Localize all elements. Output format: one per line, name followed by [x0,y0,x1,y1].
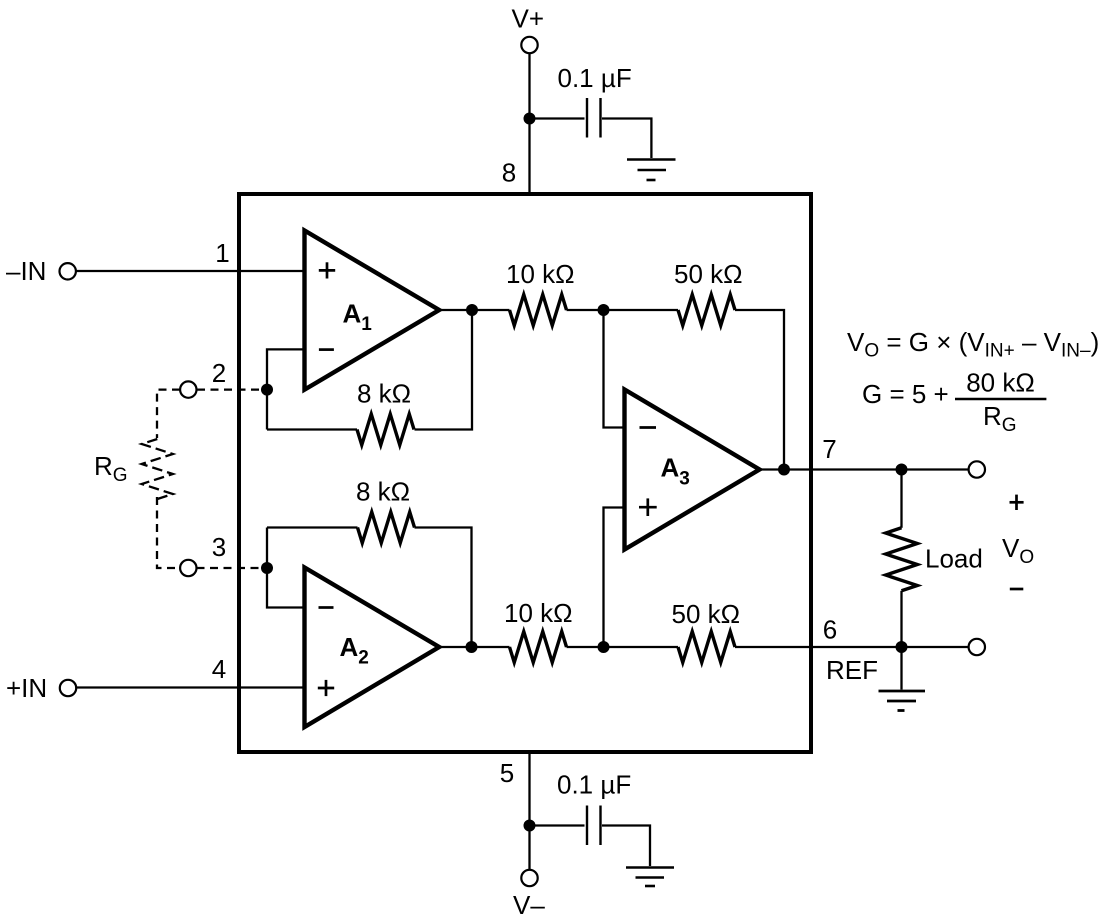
wire A3 output to VO terminal (pin 7) [760,468,969,470]
junction on V+ wire [524,113,536,125]
wire 50k top to A3 output [735,310,784,470]
dashed wire terminal 3 to pin 3 node [197,567,260,569]
svg-text:0.1 µF: 0.1 µF [558,63,632,93]
svg-text:RG: RG [94,451,128,486]
svg-text:2: 2 [212,358,226,388]
terminal +IN [60,680,76,696]
svg-text:50 kΩ: 50 kΩ [672,599,741,629]
A2 + input sign [318,680,334,696]
svg-text:G = 5 +: G = 5 + [862,379,949,409]
wire A2 inverting input [267,528,305,608]
terminal V- [521,870,537,886]
svg-text:0.1 µF: 0.1 µF [557,770,631,800]
svg-text:8 kΩ: 8 kΩ [356,477,410,507]
A1 + input sign [319,262,335,278]
wire A2 feedback right lead to output [415,528,472,648]
svg-text:10 kΩ: 10 kΩ [504,598,573,628]
wire V+ to pin 8 [528,54,530,195]
wire load bottom lead [900,591,902,647]
svg-text:Load: Load [925,544,983,574]
resistor 50 kOhm (top) [678,295,735,326]
wire +IN to A2 noninverting input (pin 4) [77,686,305,688]
resistor 50 kOhm (bottom) [678,632,735,663]
node A3 output junction [778,464,790,476]
label + (output polarity) [1010,495,1024,510]
svg-text:6: 6 [823,615,837,645]
svg-text:V+: V+ [512,4,545,34]
wire REF to ground [900,647,902,690]
wire A1 inverting input [267,349,305,429]
ground (bottom) [626,868,674,887]
svg-text:3: 3 [212,532,226,562]
terminal V+ [521,37,537,53]
svg-text:1: 1 [215,238,229,268]
capacitor C2 0.1 uF [587,806,601,846]
dashed wire pin 2 to RG terminal [197,388,260,390]
resistor 8 kOhm (A1 feedback) [357,414,414,445]
terminal -IN [59,263,75,279]
dashed wire terminal 2 to RG [157,390,180,438]
wire load top lead [900,470,902,528]
node A2 output junction [466,641,478,653]
node load top junction [896,464,908,476]
wire junction to C1 [530,117,585,119]
svg-text:+IN: +IN [6,673,47,703]
svg-text:50 kΩ: 50 kΩ [674,259,743,289]
svg-text:8 kΩ: 8 kΩ [357,379,411,409]
node REF junction [896,641,908,653]
svg-text:REF: REF [826,655,878,685]
resistor 8 kOhm (A2 feedback) [358,512,415,543]
A1 - input sign [319,348,334,351]
node A3 inverting junction [598,304,610,316]
node A3 noninverting junction [598,641,610,653]
A3 + input sign [639,498,657,516]
svg-text:8: 8 [502,158,516,188]
dashed wire RG to terminal 3 [157,497,180,568]
terminal pin 3 (RG) [180,560,196,576]
svg-text:7: 7 [822,434,836,464]
resistor 10 kOhm (bottom) [510,632,567,663]
resistor 10 kOhm (top) [510,295,567,326]
svg-text:RG: RG [983,401,1017,436]
wire A1 feedback right lead to output [415,310,473,430]
formula fraction bar [955,398,1046,401]
wire A1 output [439,309,509,311]
svg-text:–IN: –IN [6,256,46,286]
op-amp A2 [305,568,440,728]
wire A1 feedback left lead [267,428,357,430]
node pin 2 junction [261,384,273,396]
IC package outline U1 [239,194,811,752]
node pin 3 junction [261,562,273,574]
wire junction to C2 [530,824,585,826]
node A1 output junction [466,304,478,316]
wire -IN to A1 noninverting input (pin 1) [77,270,305,272]
A3 - input sign [640,426,657,429]
svg-text:V–: V– [513,890,545,919]
svg-text:VO: VO [1002,533,1034,568]
terminal pin 2 (RG) [180,381,196,397]
terminal REF [969,639,985,655]
resistor RG (external, dashed) [142,439,173,499]
wire pin 5 to V- terminal [528,752,530,870]
junction on V- wire [524,820,536,832]
wire A3 noninverting input [604,508,625,648]
wire A2 feedback left lead [267,526,358,528]
wire C1 to ground [602,119,651,159]
svg-text:5: 5 [500,758,514,788]
terminal VO [969,461,985,477]
svg-text:80 kΩ: 80 kΩ [966,368,1035,398]
resistor Load [886,528,918,591]
capacitor C1 0.1 uF [587,98,601,138]
ground (top) [627,160,676,181]
op-amp A3 [625,390,760,550]
wire A3 inverting input [604,310,625,428]
wire C2 to ground [602,826,650,867]
wire 50k bottom to REF terminal (pin 6) [735,646,969,648]
wire A2 output to 10k bottom [439,646,509,648]
svg-text:4: 4 [212,654,226,684]
A2 - input sign [319,606,334,609]
wire 10k to 50k (top) [567,309,679,311]
ground (REF) [879,691,926,711]
wire 10k bottom to 50k bottom [567,646,679,648]
svg-text:VO = G × (VIN+ – VIN–): VO = G × (VIN+ – VIN–) [847,327,1099,362]
svg-text:10 kΩ: 10 kΩ [506,259,575,289]
op-amp A1 [305,231,440,390]
label - (output polarity) [1010,588,1024,591]
